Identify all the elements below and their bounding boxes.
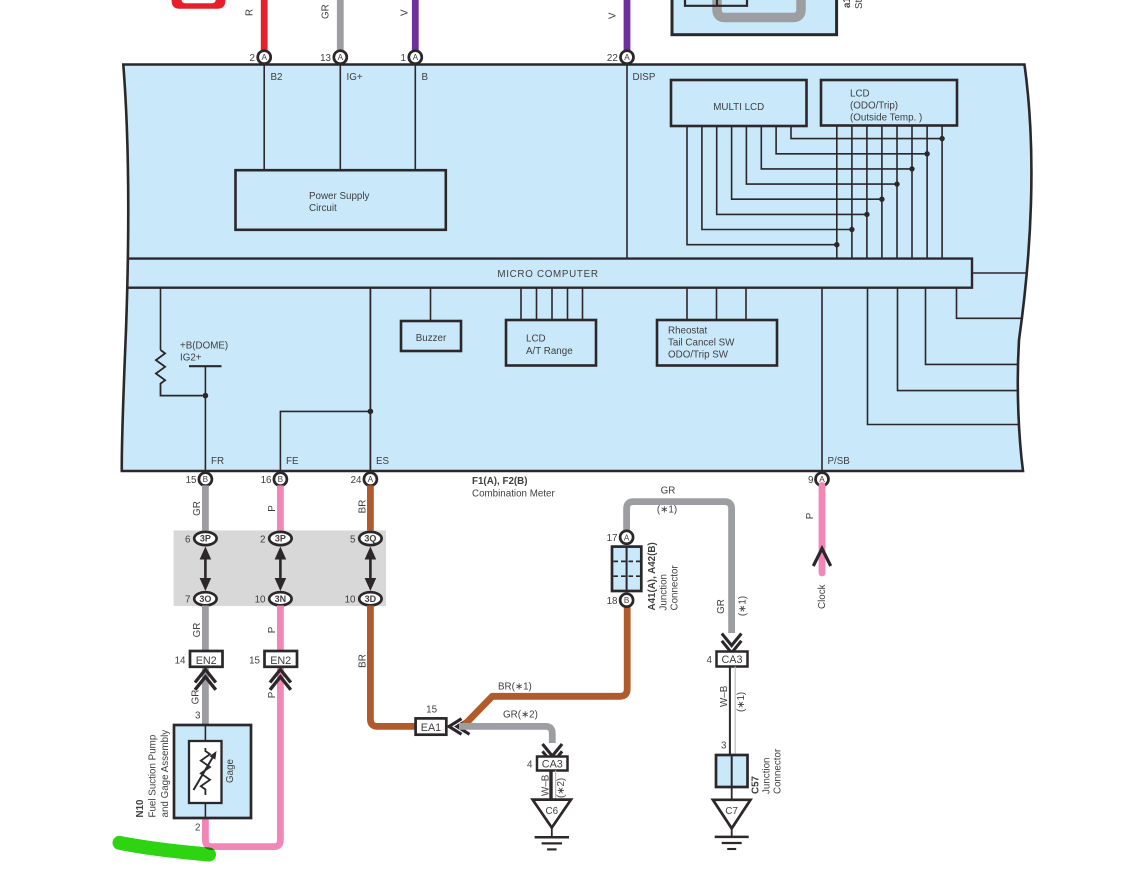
lcd column 2 (851, 126, 853, 259)
svg-text:and Gage Assembly: and Gage Assembly (160, 730, 171, 818)
svg-text:22: 22 (607, 53, 618, 64)
svg-text:(ODO/Trip): (ODO/Trip) (850, 101, 898, 112)
connector 3P (194, 532, 216, 545)
svg-text:P: P (267, 505, 278, 512)
chevrons EA1 (449, 719, 470, 735)
rheostat sw box (686, 288, 688, 320)
junction dot 2 (849, 227, 854, 232)
lcd column 5 (896, 126, 898, 259)
pin 1 A (409, 51, 422, 64)
junction dot 8 (939, 136, 944, 141)
pin 15 B (199, 473, 212, 486)
svg-text:15: 15 (186, 475, 197, 486)
svg-text:MICRO COMPUTER: MICRO COMPUTER (497, 269, 598, 280)
lcd column 6 (911, 126, 913, 259)
junction dot 7 (924, 151, 929, 156)
lcd a/t range box (520, 288, 522, 320)
svg-text:(∗1): (∗1) (657, 505, 677, 516)
svg-text:A: A (338, 53, 344, 62)
svg-text:LCD: LCD (526, 334, 546, 345)
svg-text:15: 15 (426, 705, 437, 716)
net ES (369, 288, 371, 471)
connector EN2 14 (190, 651, 223, 667)
svg-text:1: 1 (401, 53, 406, 64)
ground C6 (551, 771, 553, 807)
svg-text:BR(∗1): BR(∗1) (498, 682, 532, 693)
svg-text:Rheostat: Rheostat (668, 326, 707, 337)
svg-text:ES: ES (376, 456, 390, 467)
svg-text:BR: BR (358, 654, 369, 668)
green marker (120, 843, 210, 855)
svg-text:GR: GR (191, 690, 202, 705)
clock arrow (813, 549, 830, 567)
svg-text:GR: GR (321, 4, 332, 19)
arrow col1 (200, 547, 212, 592)
junction dot 5 (894, 181, 899, 186)
svg-text:10: 10 (345, 595, 356, 606)
svg-text:W–B: W–B (719, 685, 730, 707)
svg-text:IG+: IG+ (347, 72, 363, 83)
svg-text:a16: a16 (842, 0, 853, 8)
svg-text:B: B (203, 475, 209, 484)
svg-text:FE: FE (286, 456, 299, 467)
svg-text:24: 24 (351, 475, 362, 486)
IG2+ terminal (189, 365, 222, 367)
svg-text:A: A (261, 53, 267, 62)
svg-text:Tail Cancel SW: Tail Cancel SW (668, 338, 735, 349)
junction dot 6 (909, 166, 914, 171)
svg-text:ODO/Trip SW: ODO/Trip SW (668, 350, 729, 361)
svg-text:Connector: Connector (670, 565, 681, 611)
multi lcd wire 8 (791, 126, 942, 139)
wire P to EN2 and N10 (205, 606, 280, 847)
net DISP (626, 65, 628, 259)
svg-text:C7: C7 (725, 806, 738, 817)
svg-text:Buzzer: Buzzer (416, 333, 447, 344)
net B2 (263, 65, 265, 171)
net B (414, 65, 416, 171)
svg-text:3: 3 (195, 711, 201, 722)
svg-text:Clock: Clock (817, 584, 828, 609)
connector band (174, 530, 386, 606)
svg-text:Circuit: Circuit (309, 203, 337, 214)
pin 18 B (620, 594, 633, 607)
svg-text:DISP: DISP (633, 72, 656, 83)
svg-text:5: 5 (350, 534, 356, 545)
gage resistor (201, 748, 210, 795)
pin 2 A (258, 51, 271, 64)
svg-text:3Q: 3Q (364, 534, 376, 544)
wire P from P/SB (819, 485, 826, 573)
svg-text:P: P (267, 626, 278, 633)
net P/SB (821, 288, 823, 471)
lcd column 8 (941, 126, 943, 259)
svg-text:C6: C6 (546, 806, 559, 817)
svg-text:(Outside Temp. ): (Outside Temp. ) (850, 113, 922, 124)
svg-text:3P: 3P (275, 534, 286, 544)
svg-text:MULTI LCD: MULTI LCD (713, 102, 764, 113)
svg-text:4: 4 (527, 759, 533, 770)
svg-text:GR: GR (192, 623, 203, 638)
pin 16 B (274, 473, 287, 486)
svg-text:F1(A), F2(B): F1(A), F2(B) (472, 476, 528, 487)
junction dot 1 (834, 242, 839, 247)
combination meter outline (122, 65, 1032, 472)
wire V DISP (624, 0, 631, 51)
multi lcd wire 2 (702, 126, 852, 230)
lcd column 7 (926, 126, 928, 259)
wire V (412, 0, 419, 51)
connector CA3 right (717, 652, 748, 667)
junction connector A41/A42 (612, 547, 641, 591)
step wire 4 (868, 288, 1019, 425)
wire GR from FR (202, 485, 209, 531)
svg-text:17: 17 (607, 533, 618, 544)
net FE (280, 411, 370, 471)
svg-text:18: 18 (607, 596, 618, 607)
svg-text:A: A (413, 53, 419, 62)
svg-text:3N: 3N (275, 594, 287, 604)
svg-text:2: 2 (260, 534, 265, 545)
wire GR loop inside a16 (717, 0, 801, 18)
a16 connector cells (685, 0, 747, 6)
chevrons EN2 14 (195, 670, 216, 690)
svg-text:15: 15 (249, 655, 260, 666)
svg-text:3O: 3O (199, 594, 211, 604)
multi lcd box (671, 80, 807, 126)
arrow col3 (365, 547, 377, 592)
red wire loop (172, 0, 226, 9)
multi lcd wire 7 (776, 126, 927, 154)
svg-text:V: V (608, 12, 619, 19)
junction dot FR (203, 393, 209, 399)
N10 fuel pump box (174, 725, 251, 818)
arrow col2 (275, 547, 287, 592)
svg-text:6: 6 (185, 534, 191, 545)
svg-text:Stop: Stop (854, 0, 865, 9)
connector 3O (194, 592, 216, 605)
wire GR(*1) (627, 502, 732, 633)
svg-text:Fuel Suction Pump: Fuel Suction Pump (148, 734, 159, 817)
svg-text:GR(∗2): GR(∗2) (503, 710, 538, 721)
step wire 3 (898, 288, 1018, 391)
gage arrow (194, 758, 213, 790)
svg-text:N10: N10 (135, 799, 146, 818)
step wire 2 (926, 288, 1019, 365)
svg-text:B: B (278, 475, 284, 484)
svg-text:A: A (368, 475, 374, 484)
step wire 1 (957, 288, 1022, 319)
svg-text:10: 10 (255, 595, 266, 606)
connector 3D (359, 592, 381, 605)
wire W-B (*1) (729, 667, 731, 756)
wire GR (337, 0, 344, 51)
wire GR to EN2 (202, 606, 209, 726)
connector 3P b (269, 532, 291, 545)
power supply circuit box (236, 170, 446, 230)
junction connector C57 (716, 755, 748, 787)
svg-text:3: 3 (721, 741, 727, 752)
lcd odo/trip box (821, 80, 957, 126)
multi lcd wire 6 (761, 126, 912, 169)
buzzer box (430, 288, 432, 321)
ground C7 (731, 787, 733, 806)
svg-text:9: 9 (808, 475, 813, 486)
pin 13 A (334, 51, 347, 64)
lcd column 1 (836, 126, 838, 259)
gage box (189, 741, 222, 803)
gage wire (204, 725, 206, 748)
svg-text:GR: GR (192, 501, 203, 516)
chevrons EN2 15 (270, 670, 291, 690)
multi lcd wire 4 (732, 126, 882, 199)
svg-text:GR: GR (661, 486, 676, 497)
wire R (261, 0, 268, 51)
svg-text:EA1: EA1 (421, 722, 441, 734)
connector 3Q (359, 532, 381, 545)
connector EN2 15 (265, 651, 298, 667)
resistor +B(DOME) (160, 288, 162, 350)
pin 9 A (816, 473, 829, 486)
lcd column 3 (866, 126, 868, 259)
net FR (204, 396, 206, 471)
svg-text:C57: C57 (751, 775, 762, 794)
multi lcd wire 3 (717, 126, 867, 214)
svg-text:B: B (422, 72, 429, 83)
wire BR(*1) (459, 607, 627, 727)
svg-text:(∗1): (∗1) (736, 692, 747, 712)
svg-text:4: 4 (707, 655, 713, 666)
svg-text:16: 16 (261, 475, 272, 486)
lcd column 4 (881, 126, 883, 259)
svg-text:(∗1): (∗1) (737, 596, 748, 616)
multi lcd wire 1 (687, 126, 837, 245)
connector 3N (269, 592, 291, 605)
svg-text:Junction: Junction (659, 574, 670, 611)
connector a16 box (672, 0, 837, 35)
wire P from FE (277, 485, 284, 531)
svg-text:2: 2 (250, 53, 255, 64)
svg-text:3D: 3D (365, 594, 377, 604)
pin 24 A (364, 473, 377, 486)
bar right line (972, 272, 1027, 274)
svg-text:R: R (245, 9, 256, 16)
chevrons CA3 right (722, 634, 742, 653)
svg-text:7: 7 (185, 595, 190, 606)
wire BR from ES (367, 485, 374, 531)
svg-text:CA3: CA3 (542, 759, 563, 771)
svg-text:14: 14 (175, 655, 186, 666)
svg-text:W–B: W–B (540, 774, 551, 796)
svg-text:A/T Range: A/T Range (526, 346, 573, 357)
svg-text:FR: FR (211, 456, 224, 467)
wire BR to EA1 (370, 606, 416, 727)
svg-text:2: 2 (195, 823, 200, 834)
svg-text:A: A (624, 53, 630, 62)
svg-text:IG2+: IG2+ (180, 353, 202, 364)
svg-text:3P: 3P (200, 534, 211, 544)
wire GR(*2) (459, 726, 552, 743)
svg-text:EN2: EN2 (270, 655, 291, 667)
junction dot 4 (879, 197, 884, 202)
wire W-B (*2) (549, 771, 551, 800)
svg-text:B: B (624, 596, 630, 605)
svg-text:Connector: Connector (773, 748, 784, 794)
connector CA3 left (537, 757, 568, 771)
svg-text:B2: B2 (271, 72, 283, 83)
svg-text:Power Supply: Power Supply (309, 191, 370, 202)
svg-text:P: P (267, 691, 278, 698)
svg-text:CA3: CA3 (721, 654, 742, 666)
pin 22 A (621, 51, 634, 64)
svg-text:13: 13 (320, 53, 331, 64)
svg-text:V: V (400, 9, 411, 16)
multi lcd wire 5 (746, 126, 897, 184)
svg-text:BR: BR (358, 500, 369, 514)
junction dot 3 (864, 212, 869, 217)
svg-text:P/SB: P/SB (828, 456, 851, 467)
svg-text:Gage: Gage (225, 758, 236, 783)
pin 17 A (620, 531, 633, 544)
svg-text:Junction: Junction (762, 758, 773, 795)
svg-text:A41(A), A42(B): A41(A), A42(B) (647, 542, 658, 610)
svg-text:+B(DOME): +B(DOME) (180, 341, 228, 352)
svg-text:Combination Meter: Combination Meter (472, 489, 556, 500)
svg-text:(∗2): (∗2) (556, 778, 567, 798)
chevrons CA3 left (543, 744, 563, 763)
micro computer bar (128, 259, 972, 288)
svg-text:A: A (624, 533, 630, 542)
net IG+ (339, 65, 341, 171)
svg-text:LCD: LCD (850, 89, 870, 100)
svg-text:GR: GR (716, 599, 727, 614)
svg-text:EN2: EN2 (196, 655, 217, 667)
svg-text:P: P (805, 512, 816, 519)
